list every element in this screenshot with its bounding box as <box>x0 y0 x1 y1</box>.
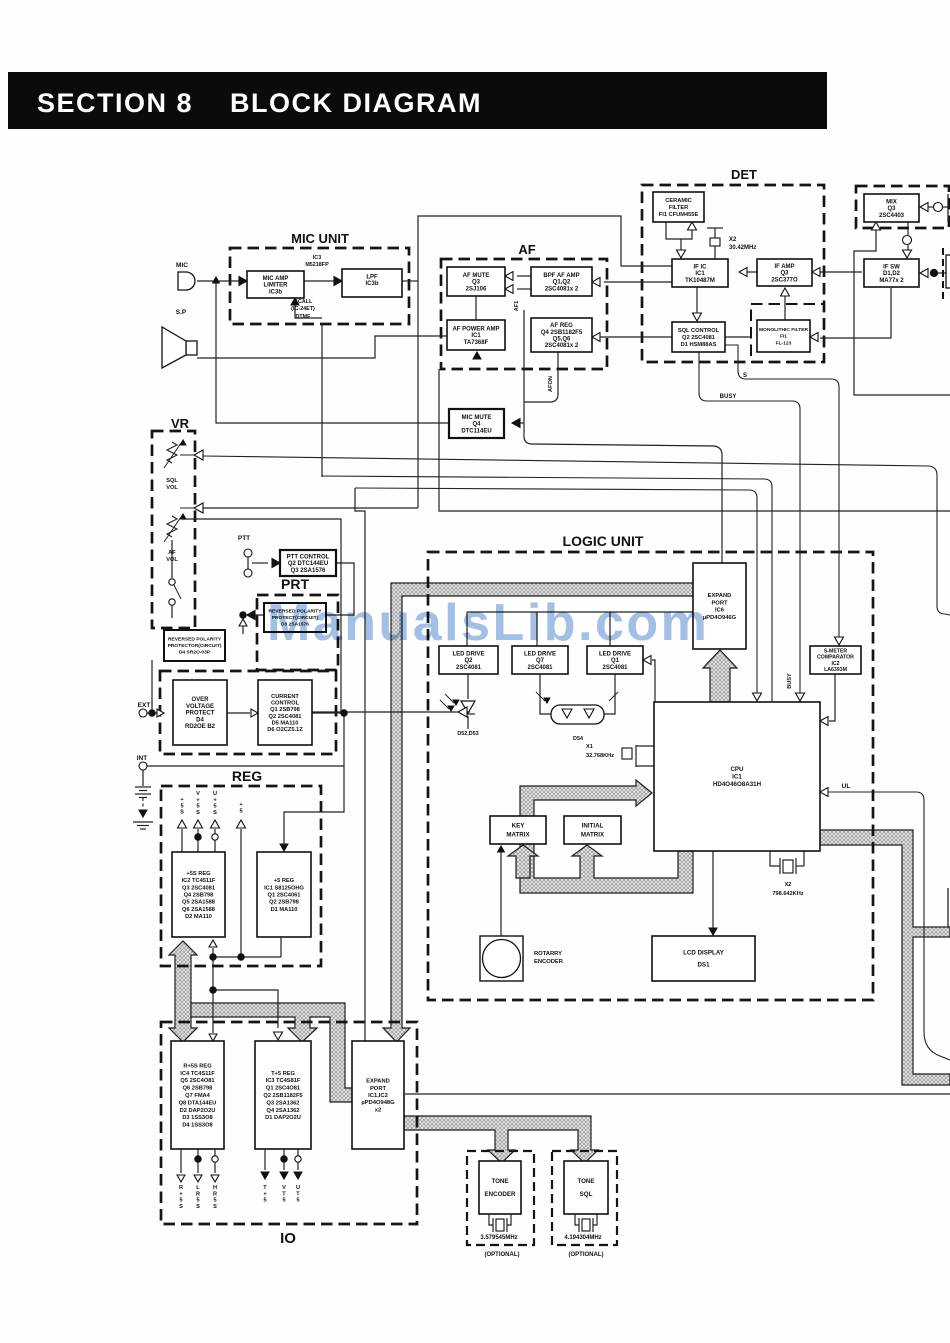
svg-text:T+5 REGIC3 TC4S81FQ1 2SC4O81Q2: T+5 REGIC3 TC4S81FQ1 2SC4O81Q2 2SB1182F5… <box>263 1071 302 1121</box>
svg-text:PTT: PTT <box>238 535 250 542</box>
svg-text:MIC UNIT: MIC UNIT <box>291 231 349 246</box>
svg-text:BLOCK DIAGRAM: BLOCK DIAGRAM <box>230 88 482 118</box>
svg-text:VOL: VOL <box>166 557 178 563</box>
svg-text:BUSY: BUSY <box>720 394 737 400</box>
svg-text:ENCODER: ENCODER <box>534 959 564 965</box>
svg-text:SQL: SQL <box>166 478 178 484</box>
svg-text:D54: D54 <box>573 736 583 742</box>
svg-text:AF: AF <box>168 550 176 556</box>
svg-text:M5218FP: M5218FP <box>305 262 329 268</box>
svg-text:REG: REG <box>232 768 262 784</box>
svg-text:VR: VR <box>171 416 190 431</box>
svg-text:PTT CONTROLQ2 DTC144EUQ3 2SA15: PTT CONTROLQ2 DTC144EUQ3 2SA1576 <box>287 554 330 573</box>
svg-text:IO: IO <box>280 1230 296 1247</box>
svg-text:DTMF: DTMF <box>296 314 312 320</box>
svg-text:IC3: IC3 <box>313 255 321 261</box>
svg-text:INT: INT <box>137 755 148 762</box>
svg-text:30.42MHz: 30.42MHz <box>729 245 756 251</box>
svg-text:EXT: EXT <box>138 702 151 709</box>
svg-text:3.579545MHz: 3.579545MHz <box>480 1235 517 1241</box>
svg-text:ManualsLib.com: ManualsLib.com <box>267 594 709 652</box>
svg-text:S.P: S.P <box>176 309 187 316</box>
svg-text:32.768KHz: 32.768KHz <box>586 753 614 759</box>
svg-text:ROTARRY: ROTARRY <box>534 951 562 957</box>
svg-text:(OPTIONAL): (OPTIONAL) <box>569 1252 604 1258</box>
svg-text:(OPTIONAL): (OPTIONAL) <box>485 1252 520 1258</box>
svg-text:LPFIC3b: LPFIC3b <box>365 274 378 287</box>
svg-text:798.642KHz: 798.642KHz <box>772 891 803 897</box>
svg-text:AF: AF <box>518 242 535 257</box>
svg-text:S: S <box>743 373 747 379</box>
svg-text:X2: X2 <box>729 237 737 243</box>
svg-text:T.CALL: T.CALL <box>294 299 313 305</box>
svg-text:SECTION 8: SECTION 8 <box>37 88 193 118</box>
svg-text:PRT: PRT <box>281 576 309 592</box>
svg-text:(IC-24ET): (IC-24ET) <box>291 306 315 312</box>
svg-text:X1: X1 <box>586 744 593 750</box>
svg-text:HR5S: HR5S <box>213 1185 217 1210</box>
svg-text:BUSY: BUSY <box>787 673 793 689</box>
svg-text:X2: X2 <box>785 882 792 888</box>
svg-text:CURRENTCONTROLQ1 2SB798Q2 2SC4: CURRENTCONTROLQ1 2SB798Q2 2SC4081D5 MA11… <box>267 694 303 733</box>
svg-text:+5S REGIC2 TC4511FQ3 2SC4081Q4: +5S REGIC2 TC4511FQ3 2SC4081Q4 2SB798Q5 … <box>182 871 216 920</box>
svg-text:SQL CONTROLQ2 2SC4081D1 HSM88A: SQL CONTROLQ2 2SC4081D1 HSM88AS <box>678 328 720 348</box>
svg-text:AF1: AF1 <box>514 301 520 312</box>
svg-text:D52,D53: D52,D53 <box>457 731 478 737</box>
svg-text:4.194304MHz: 4.194304MHz <box>564 1235 601 1241</box>
svg-text:LOGIC UNIT: LOGIC UNIT <box>563 533 644 549</box>
svg-text:UL: UL <box>842 783 851 790</box>
svg-text:MIC: MIC <box>176 262 188 269</box>
svg-text:AFON: AFON <box>548 376 554 392</box>
svg-text:DET: DET <box>731 167 757 182</box>
svg-text:VOL: VOL <box>166 485 178 491</box>
